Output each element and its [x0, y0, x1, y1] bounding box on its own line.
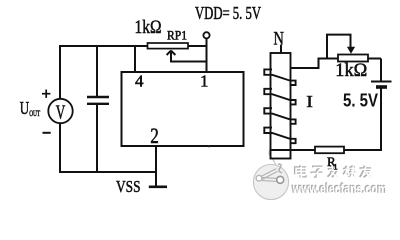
- svg-text:RP1: RP1: [167, 29, 187, 43]
- svg-text:U: U: [20, 98, 30, 118]
- svg-text:I: I: [306, 92, 313, 111]
- svg-text:4: 4: [135, 72, 144, 91]
- svg-text:V: V: [56, 101, 66, 123]
- svg-text:1: 1: [334, 163, 338, 172]
- svg-text:1: 1: [200, 72, 209, 91]
- svg-text:2: 2: [150, 123, 159, 148]
- svg-text:OUT: OUT: [29, 108, 40, 118]
- svg-text:www.elecfans.com: www.elecfans.com: [292, 182, 387, 197]
- svg-text:VDD= 5. 5V: VDD= 5. 5V: [195, 3, 261, 23]
- svg-text:VSS: VSS: [116, 177, 141, 196]
- svg-text:1kΩ: 1kΩ: [335, 60, 367, 81]
- svg-text:N: N: [274, 30, 284, 50]
- svg-text:1kΩ: 1kΩ: [135, 17, 162, 38]
- svg-text:5. 5V: 5. 5V: [343, 91, 378, 111]
